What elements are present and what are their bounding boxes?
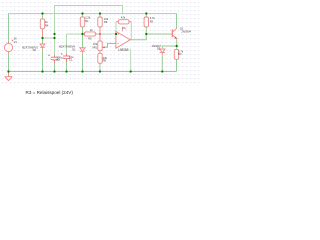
wire op-amp output <box>130 34 146 40</box>
svg-text:R2: R2 <box>150 19 154 23</box>
resistor R5 1k horizontal <box>84 32 95 36</box>
relay coil resistor R3 <box>174 49 178 59</box>
wire 47k right drop to output <box>130 22 132 40</box>
resistor R4 <box>40 19 44 29</box>
wire D2 column <box>42 38 44 72</box>
junction dots <box>7 12 178 72</box>
svg-text:D1: D1 <box>72 48 76 52</box>
op-amp U1 <box>116 28 130 50</box>
node crossing R6 lead over ref wire <box>99 33 101 35</box>
svg-text:D2: D2 <box>33 48 37 52</box>
wire node divider horizontal y38 <box>43 37 55 38</box>
capacitor C2 <box>48 54 58 62</box>
svg-text:V1: V1 <box>14 40 18 44</box>
wire R4 column top <box>42 14 44 20</box>
svg-text:C1: C1 <box>69 58 73 62</box>
svg-text:2.2k: 2.2k <box>85 16 91 20</box>
zener diode D2 <box>40 44 45 49</box>
wire C1 drop from ref line <box>66 34 68 54</box>
svg-text:47k: 47k <box>121 15 126 19</box>
wire op-amp V- to ground rail <box>130 49 132 72</box>
wire reference line y34 <box>67 33 116 35</box>
capacitor C1 <box>61 53 70 62</box>
svg-text:R6: R6 <box>104 20 108 24</box>
zener diode D1 <box>80 48 85 54</box>
svg-text:2N3904: 2N3904 <box>181 30 191 34</box>
svg-text:R3: R3 <box>178 52 182 56</box>
svg-text:D3: D3 <box>157 46 161 50</box>
svg-text:LM358: LM358 <box>118 48 128 52</box>
wire VR1 wiper to minus input <box>104 44 116 48</box>
wire V1 bottom lead <box>8 54 10 72</box>
svg-text:10k: 10k <box>93 42 98 46</box>
wire R8 bottom lead <box>99 65 101 72</box>
voltage source V1 <box>4 40 13 54</box>
ground <box>5 72 13 81</box>
potentiometer VR1 <box>98 41 102 51</box>
wire bottom ground rail <box>9 71 177 73</box>
wire R6 column top <box>99 14 101 18</box>
svg-text:BZX79-B5V6: BZX79-B5V6 <box>59 44 75 48</box>
svg-text:BZX79-B9V1: BZX79-B9V1 <box>22 46 38 50</box>
wire C2 bottom lead <box>54 63 56 72</box>
svg-text:R3 = Relaisspoel (24V): R3 = Relaisspoel (24V) <box>26 90 74 95</box>
wire R3 bottom to rail <box>176 60 178 72</box>
wire R1 2.2k column <box>82 14 84 35</box>
wire 47k left drop to plus input node <box>115 22 117 34</box>
wire collector drop from rail <box>176 14 178 29</box>
svg-text:C2: C2 <box>56 58 60 62</box>
wire emitter down <box>176 39 178 46</box>
resistor R1 2.2k <box>80 17 84 27</box>
diode D3 1N4007 <box>160 49 166 55</box>
svg-text:VR1: VR1 <box>92 46 98 50</box>
svg-text:26: 26 <box>14 37 17 41</box>
resistor R2 4.7k <box>144 17 148 27</box>
transistor Q1 <box>170 28 177 39</box>
wire base line <box>146 33 170 35</box>
wire top rail <box>9 13 177 15</box>
resistor R7 47k feedback <box>118 20 129 24</box>
wire emitter node to diode branch <box>162 46 176 48</box>
wire R3 top lead <box>176 46 178 49</box>
wire upper detour rail <box>55 6 123 56</box>
wire R2 column <box>145 14 147 35</box>
resistor R8 <box>98 53 102 63</box>
wire D1 column <box>82 34 84 72</box>
svg-text:R8: R8 <box>103 58 107 62</box>
wire C1 bottom lead <box>66 62 68 72</box>
svg-text:R1: R1 <box>85 19 89 23</box>
resistor R6 <box>98 17 102 27</box>
wire V1 top lead <box>8 14 10 41</box>
svg-text:R4: R4 <box>45 23 49 27</box>
wire D3 bottom lead <box>161 56 163 72</box>
svg-text:R5: R5 <box>88 37 92 41</box>
